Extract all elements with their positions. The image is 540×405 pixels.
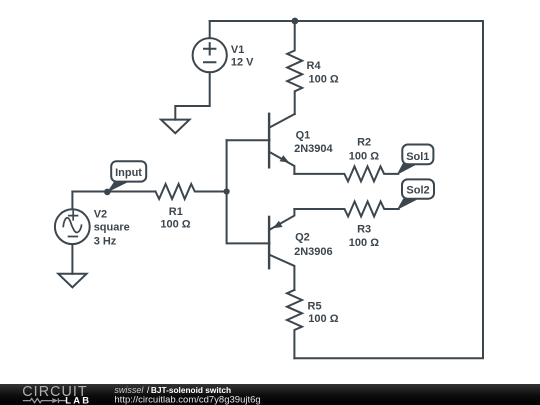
svg-text:Sol2: Sol2 <box>406 184 429 196</box>
svg-text:V2: V2 <box>94 209 107 221</box>
svg-text:2N3906: 2N3906 <box>294 246 333 258</box>
svg-text:V1: V1 <box>231 44 244 56</box>
svg-text:3 Hz: 3 Hz <box>94 235 117 247</box>
svg-text:http://circuitlab.com/cd7y8g39: http://circuitlab.com/cd7y8g39ujt6g <box>114 394 260 405</box>
svg-text:100 Ω: 100 Ω <box>160 219 190 231</box>
svg-text:100 Ω: 100 Ω <box>349 151 379 163</box>
svg-text:Q1: Q1 <box>296 130 311 142</box>
svg-text:100 Ω: 100 Ω <box>349 237 379 249</box>
svg-text:100 Ω: 100 Ω <box>309 74 339 86</box>
svg-text:R3: R3 <box>357 223 371 235</box>
svg-text:Sol1: Sol1 <box>406 151 429 163</box>
svg-text:R4: R4 <box>307 60 322 72</box>
svg-text:Input: Input <box>115 167 142 179</box>
svg-text:2N3904: 2N3904 <box>294 143 333 155</box>
svg-text:LAB: LAB <box>65 394 91 405</box>
svg-text:square: square <box>94 221 130 233</box>
svg-text:100 Ω: 100 Ω <box>308 313 338 325</box>
svg-text:R5: R5 <box>308 301 322 313</box>
svg-text:R2: R2 <box>357 137 371 149</box>
svg-text:12 V: 12 V <box>231 57 254 69</box>
svg-text:Q2: Q2 <box>295 232 310 244</box>
svg-text:R1: R1 <box>169 206 183 218</box>
